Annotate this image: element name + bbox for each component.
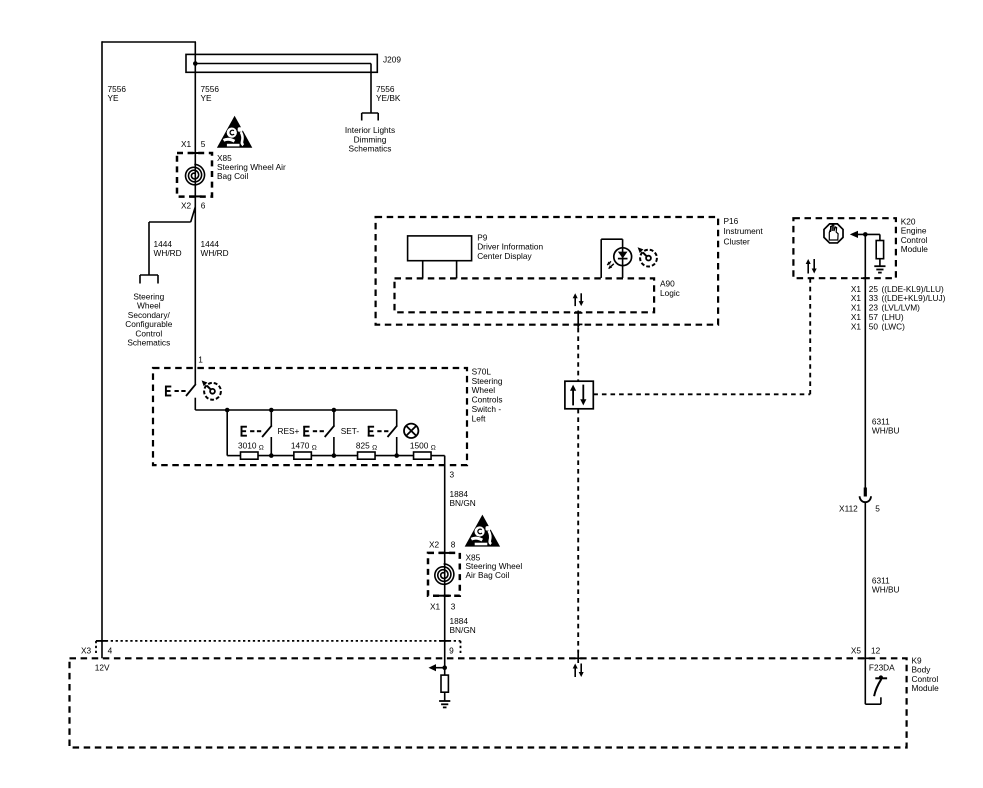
svg-text:825: 825 (356, 440, 370, 450)
svg-text:1470: 1470 (291, 440, 310, 450)
svg-text:WH/RD: WH/RD (201, 248, 229, 258)
svg-text:Center Display: Center Display (477, 251, 532, 261)
svg-text:3: 3 (451, 601, 456, 611)
svg-text:Ω: Ω (312, 445, 317, 452)
svg-text:Instrument: Instrument (724, 226, 764, 236)
svg-text:A90: A90 (660, 278, 675, 288)
svg-text:1: 1 (198, 355, 203, 365)
svg-text:50: 50 (869, 321, 879, 331)
svg-text:Cluster: Cluster (724, 236, 751, 246)
svg-text:YE: YE (201, 93, 213, 103)
svg-text:P16: P16 (724, 216, 739, 226)
svg-text:Air Bag Coil: Air Bag Coil (466, 570, 510, 580)
svg-text:Module: Module (901, 244, 929, 254)
svg-text:1500: 1500 (410, 440, 429, 450)
svg-text:Module: Module (912, 683, 940, 693)
svg-text:YE/BK: YE/BK (376, 93, 401, 103)
svg-text:WH/BU: WH/BU (872, 585, 900, 595)
svg-text:J209: J209 (383, 54, 401, 64)
svg-text:Ω: Ω (372, 445, 377, 452)
svg-text:Ω: Ω (259, 445, 264, 452)
svg-text:Ω: Ω (431, 445, 436, 452)
svg-text:X2: X2 (181, 201, 192, 211)
svg-text:Schematics: Schematics (349, 144, 392, 154)
svg-text:F23DA: F23DA (869, 663, 895, 673)
svg-text:BN/GN: BN/GN (450, 498, 476, 508)
svg-text:RES+: RES+ (278, 426, 300, 436)
svg-text:X112: X112 (839, 503, 858, 513)
svg-text:X2: X2 (429, 539, 440, 549)
svg-text:12: 12 (871, 645, 881, 655)
svg-text:8: 8 (451, 539, 456, 549)
svg-text:5: 5 (201, 139, 206, 149)
svg-text:X1: X1 (181, 139, 192, 149)
svg-text:X3: X3 (81, 645, 92, 655)
svg-text:X1: X1 (430, 601, 441, 611)
svg-text:3: 3 (450, 470, 455, 480)
svg-text:WH/BU: WH/BU (872, 426, 900, 436)
svg-text:(LWC): (LWC) (882, 321, 906, 331)
svg-text:12V: 12V (95, 662, 110, 672)
svg-text:YE: YE (108, 93, 120, 103)
svg-text:Left: Left (472, 413, 487, 423)
svg-text:Bag Coil: Bag Coil (217, 171, 249, 181)
svg-text:X1: X1 (851, 321, 862, 331)
svg-text:6: 6 (201, 201, 206, 211)
svg-text:SET-: SET- (341, 426, 360, 436)
svg-text:4: 4 (108, 645, 113, 655)
svg-text:X5: X5 (851, 645, 862, 655)
svg-text:WH/RD: WH/RD (154, 248, 182, 258)
svg-text:BN/GN: BN/GN (450, 625, 476, 635)
svg-text:3010: 3010 (238, 440, 257, 450)
svg-text:Logic: Logic (660, 288, 680, 298)
svg-text:5: 5 (875, 503, 880, 513)
svg-text:9: 9 (449, 645, 454, 655)
svg-text:Schematics: Schematics (127, 338, 170, 348)
